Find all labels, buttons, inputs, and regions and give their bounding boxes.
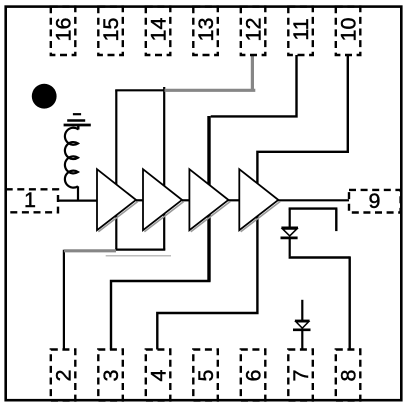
svg-text:16: 16 <box>51 18 75 42</box>
svg-text:4: 4 <box>146 369 170 381</box>
svg-text:15: 15 <box>99 18 123 42</box>
svg-text:10: 10 <box>336 18 360 42</box>
svg-text:6: 6 <box>241 369 265 381</box>
svg-text:13: 13 <box>194 18 218 42</box>
svg-text:3: 3 <box>99 369 123 381</box>
svg-text:2: 2 <box>51 370 75 382</box>
svg-text:12: 12 <box>241 18 265 42</box>
svg-text:1: 1 <box>24 188 36 212</box>
svg-text:8: 8 <box>336 369 360 381</box>
svg-text:9: 9 <box>369 189 381 213</box>
svg-text:11: 11 <box>289 18 313 40</box>
svg-text:7: 7 <box>289 370 313 382</box>
svg-text:5: 5 <box>194 369 218 381</box>
svg-text:14: 14 <box>146 18 170 42</box>
